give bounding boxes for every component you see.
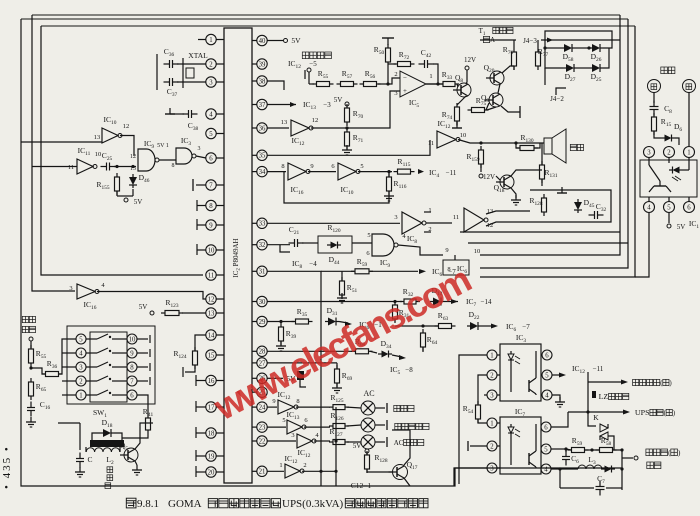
wire xtal rail — [156, 54, 158, 90]
svg-text:37: 37 — [259, 102, 266, 109]
diode D44 — [327, 242, 341, 266]
capacitor C21 — [267, 225, 303, 252]
label IC7-14 — [444, 297, 492, 308]
resistor R125 — [329, 393, 349, 410]
svg-text:3: 3 — [647, 149, 651, 156]
diode D34 — [370, 339, 392, 358]
wire pin21 — [267, 462, 284, 471]
wire lamp1 — [296, 406, 330, 408]
wire gate loop — [284, 172, 389, 203]
svg-text:5: 5 — [209, 131, 213, 138]
nor gate IC9a — [130, 139, 159, 172]
diode D46 — [129, 173, 150, 188]
svg-text:12: 12 — [312, 117, 319, 124]
label L2 relay — [105, 455, 114, 489]
svg-text:39: 39 — [259, 61, 266, 68]
wire IC3 pin4 gnd — [552, 395, 565, 407]
lamp ac-over — [347, 435, 424, 449]
wire frame top line 1 — [32, 14, 620, 16]
IC2 pin 36 — [252, 123, 267, 133]
wire 9-6 — [308, 163, 336, 172]
wire pin14 — [195, 335, 206, 351]
power 5V R70 — [334, 96, 349, 106]
svg-text:13: 13 — [281, 119, 288, 126]
switch SW1 contact 3-8 — [76, 362, 137, 372]
wire Q18 gnd — [511, 170, 542, 205]
svg-text:13: 13 — [130, 166, 136, 172]
wire frame outer left/bottom — [21, 19, 622, 486]
wire pin34 row — [267, 163, 286, 172]
resistor R115 — [394, 157, 415, 174]
wire frame right line 2 to bus — [480, 19, 628, 268]
wire y243 bus — [468, 242, 628, 244]
inverter IC10 — [94, 115, 130, 143]
switch SW1 contact 5-10 — [76, 334, 137, 344]
resistor R65 — [29, 378, 47, 400]
svg-text:−14: −14 — [481, 298, 492, 306]
wire pin30 — [267, 300, 402, 303]
diode D22 — [467, 310, 481, 330]
watermark elecfans — [207, 259, 477, 428]
wire opamp out — [426, 82, 443, 85]
transistor Q20 — [484, 63, 504, 85]
wire Q20 collector — [502, 66, 514, 73]
terminal mains live — [648, 80, 661, 93]
optocoupler IC3 body — [500, 333, 541, 401]
wire ic6-7a — [370, 269, 426, 274]
label IC12-5 — [288, 59, 317, 79]
svg-text:13: 13 — [94, 134, 101, 141]
capacitor C36 — [164, 47, 179, 68]
svg-text:11: 11 — [453, 214, 459, 221]
resistor R55b — [29, 345, 47, 367]
IC2 pin 27 — [252, 358, 267, 368]
resistor R55 — [313, 69, 334, 87]
resistor R35 — [292, 307, 313, 324]
relay L2 coil — [86, 447, 120, 452]
IC2 pin 39 — [252, 59, 267, 69]
svg-text:3: 3 — [209, 79, 213, 86]
relay L2 core — [90, 440, 124, 447]
wire pin31 — [267, 271, 321, 486]
svg-text:LZ: LZ — [599, 393, 609, 401]
svg-text:10: 10 — [474, 248, 481, 255]
svg-text:−8: −8 — [405, 366, 413, 374]
resistor R32 — [400, 287, 420, 304]
wire c21 out — [302, 242, 318, 244]
svg-text:1: 1 — [209, 37, 212, 44]
inverter IC8a — [402, 207, 432, 245]
IC3 pin4 — [541, 390, 552, 400]
svg-text:15: 15 — [208, 352, 215, 359]
svg-text:21: 21 — [259, 469, 266, 476]
wire IC12a out — [311, 91, 400, 130]
diode D45 — [574, 198, 595, 213]
wire pin21 out — [302, 470, 338, 473]
IC2 pin 17 — [206, 402, 224, 412]
IC2 pin 23 — [252, 422, 267, 432]
wire to pin6 — [196, 156, 206, 158]
svg-text:4: 4 — [209, 111, 213, 118]
wire pin15 — [183, 365, 195, 377]
terminal mains neutral — [683, 80, 696, 93]
IC7 pin3 — [487, 463, 500, 473]
resistor R127 — [329, 427, 349, 445]
wire IC7-4 out — [551, 467, 578, 470]
IC2 pin 35 — [252, 150, 267, 160]
IC2 pin 8 — [206, 200, 224, 210]
side page label 435 — [1, 445, 13, 489]
svg-text:36: 36 — [259, 125, 266, 132]
svg-text:1: 1 — [279, 462, 282, 469]
switch block SW1 box — [67, 326, 155, 419]
capacitor C37 — [164, 78, 179, 98]
svg-text:10: 10 — [460, 132, 467, 139]
svg-text:2: 2 — [490, 372, 494, 379]
svg-text:5: 5 — [360, 163, 363, 170]
svg-text:5: 5 — [544, 446, 548, 453]
svg-text:1: 1 — [490, 352, 493, 359]
svg-text:3: 3 — [291, 432, 294, 439]
power 5V pin26 — [267, 371, 306, 387]
svg-text:10: 10 — [95, 151, 102, 158]
svg-text:12: 12 — [130, 154, 136, 160]
label C12-1 — [351, 481, 372, 490]
inverter IC12b — [428, 119, 466, 148]
wire pin23 — [267, 417, 286, 427]
wire pin36 chain — [267, 127, 289, 129]
svg-text:2: 2 — [209, 61, 213, 68]
resistor R75 — [452, 96, 489, 128]
wire pin3 — [177, 81, 206, 83]
resistor R59 — [566, 436, 589, 453]
thyristor K — [593, 413, 614, 450]
ground R116 — [384, 191, 394, 201]
svg-text:8: 8 — [130, 364, 134, 371]
IC3 pin5 — [541, 370, 552, 380]
svg-text:2: 2 — [667, 149, 671, 156]
svg-text:40: 40 — [259, 38, 266, 45]
wire pin7 stub — [193, 179, 206, 191]
resistor R128a — [529, 194, 546, 216]
switch SW1 contact 1-6 — [76, 390, 137, 400]
wire out12 — [486, 222, 530, 226]
svg-text:9: 9 — [209, 222, 213, 229]
inductor L3 — [578, 455, 602, 469]
label T1 transformer — [479, 27, 513, 44]
svg-text:12: 12 — [208, 296, 215, 303]
power 5V node — [117, 189, 142, 206]
IC2 pin 24 — [252, 402, 267, 412]
wire neutral down — [688, 93, 690, 147]
relay IC1 pin3 — [644, 147, 655, 158]
svg-text:34: 34 — [259, 169, 266, 176]
capacitor C25 — [101, 151, 116, 171]
IC2 microcontroller P8049AH body — [224, 28, 252, 483]
IC7 pin5 — [541, 444, 551, 454]
label AC — [363, 389, 374, 398]
ground C relay — [75, 467, 85, 477]
label J4-3 — [523, 37, 553, 45]
svg-text:33: 33 — [259, 221, 266, 228]
IC2 pin 2 — [206, 59, 224, 69]
svg-text:23: 23 — [259, 425, 266, 432]
wire pin16 stub — [196, 375, 206, 386]
wire speaker feed — [458, 140, 544, 145]
svg-text:5V: 5V — [134, 198, 143, 206]
wire pin27 — [267, 362, 337, 364]
wire IC3 pin1 left — [459, 355, 487, 484]
resistor R77 — [536, 40, 549, 70]
label IC6-7b — [481, 322, 530, 333]
svg-text:5V: 5V — [677, 223, 686, 231]
capacitor C42 — [419, 48, 434, 68]
diode D27 — [563, 64, 577, 83]
svg-text:38: 38 — [259, 78, 266, 85]
resistor R51 — [340, 271, 358, 299]
capacitor C8 — [650, 101, 673, 116]
IC2 label — [232, 238, 242, 277]
lamp battery — [347, 418, 429, 432]
resistor R72 — [394, 50, 415, 67]
IC7 pin6 — [541, 412, 568, 432]
svg-text:8: 8 — [296, 398, 299, 405]
IC2 pin 19 — [206, 451, 224, 461]
wire Q9 base — [486, 68, 545, 110]
svg-text:11: 11 — [208, 272, 215, 279]
wire pin10 stub — [197, 244, 206, 255]
svg-text:32: 32 — [259, 242, 266, 249]
svg-text:30: 30 — [259, 299, 266, 306]
IC2 pin 20 — [206, 467, 224, 477]
svg-text:7: 7 — [130, 378, 134, 385]
inverter IC9e — [464, 208, 493, 232]
node batt — [29, 366, 32, 369]
resistor R155 — [96, 173, 119, 195]
wire pin35 long — [267, 140, 430, 155]
IC2 pin 25 — [252, 387, 267, 397]
svg-text:XTAL: XTAL — [188, 51, 208, 60]
nand gate IC9b — [372, 233, 406, 269]
resistor R54 — [463, 401, 487, 423]
ground R39 — [276, 341, 286, 351]
svg-text:−: − — [403, 73, 407, 81]
ground R71 — [342, 145, 352, 155]
wire nor out — [157, 143, 176, 160]
svg-text:3: 3 — [79, 364, 83, 371]
svg-text:10: 10 — [129, 336, 136, 343]
IC2 pin 34 — [252, 166, 267, 176]
capacitor C32 — [589, 202, 607, 219]
svg-text:3: 3 — [394, 214, 397, 221]
resistor R128b — [365, 451, 388, 473]
diode D out — [601, 466, 615, 473]
svg-text:9.8.1: 9.8.1 — [137, 498, 159, 510]
svg-text:20: 20 — [208, 469, 215, 476]
IC2 pin 4 — [206, 109, 224, 119]
svg-text:AC: AC — [394, 439, 404, 447]
wire frame top line 3 — [41, 25, 635, 27]
wire pin28 — [267, 350, 352, 352]
wire Q9 emitter — [501, 106, 520, 118]
IC2 pin 33 — [252, 218, 267, 228]
svg-text:UPS: UPS — [635, 409, 650, 417]
wire frame top line 2 — [21, 18, 628, 20]
wire y232 bus — [460, 231, 620, 233]
relay transistor — [649, 158, 671, 193]
inverter IC10b — [338, 163, 364, 196]
inverter IC16a — [69, 282, 105, 311]
relay IC1 pin6 — [684, 197, 695, 213]
lamp normal — [347, 401, 414, 415]
resistor R130 — [516, 133, 540, 151]
inverter IC11 — [68, 146, 101, 174]
svg-text:35: 35 — [259, 153, 266, 160]
IC2 pin 22 — [252, 436, 267, 446]
svg-text:−3: −3 — [323, 101, 331, 109]
svg-text:1: 1 — [687, 149, 690, 156]
svg-text:• 435 •: • 435 • — [1, 445, 13, 489]
wire pin1 stub — [198, 39, 206, 41]
IC2 pin 11 — [206, 270, 224, 280]
svg-text:18: 18 — [208, 430, 215, 437]
wire pin8 stub — [197, 200, 206, 211]
svg-text:AC: AC — [363, 389, 374, 398]
wire IC7 pin3 left — [454, 468, 487, 486]
wire Q17 collector — [392, 430, 410, 465]
svg-text:8: 8 — [209, 203, 213, 210]
IC7 pin1 — [487, 418, 500, 428]
resistor R131 — [540, 143, 558, 186]
transistor Q5 — [120, 441, 138, 462]
IC2 pin 6 — [206, 153, 224, 163]
wire out13 — [486, 211, 530, 214]
IC7 pin2 — [487, 441, 500, 451]
inverter IC12d — [297, 432, 319, 459]
resistor R76 — [503, 40, 517, 70]
svg-text:22: 22 — [259, 438, 266, 445]
svg-text:6: 6 — [209, 155, 213, 162]
svg-text:J4−3: J4−3 — [523, 37, 537, 45]
wire relay loop — [58, 423, 80, 450]
IC2 pin 31 — [252, 266, 267, 276]
wire vertical x336 — [334, 407, 337, 486]
wire relay pin4 bus — [635, 213, 649, 278]
wire IC7-5 out — [551, 447, 567, 450]
IC2 pin 21 — [252, 466, 267, 476]
wire pin9 stub — [197, 219, 206, 230]
resistor R59b — [321, 257, 373, 274]
IC2 pin 40 — [252, 35, 267, 45]
svg-text:5V: 5V — [334, 96, 343, 104]
svg-text:12V: 12V — [483, 173, 495, 181]
inverter IC13b — [287, 410, 309, 434]
svg-text:3: 3 — [490, 465, 494, 472]
wire IC10 out — [120, 136, 134, 157]
capacitor C7 — [560, 469, 622, 496]
svg-text:4: 4 — [544, 466, 548, 473]
IC2 pin 3 — [206, 77, 224, 87]
wire lamp3 — [314, 440, 330, 442]
IC2 pin 10 — [206, 245, 224, 255]
wire input 13 — [21, 141, 102, 143]
inverter IC12a — [281, 117, 319, 147]
IC2 pin 30 — [252, 296, 267, 306]
resistor R63 — [435, 311, 456, 329]
svg-text:8: 8 — [281, 163, 284, 170]
wire out node — [613, 448, 624, 490]
svg-text:2: 2 — [490, 443, 494, 450]
svg-text:GOMA: GOMA — [168, 498, 202, 510]
svg-text:7: 7 — [209, 182, 213, 189]
wire pin29 — [267, 320, 294, 323]
svg-text:C: C — [87, 455, 92, 464]
svg-text:−5: −5 — [309, 60, 317, 68]
inverter IC12e — [285, 454, 307, 478]
label IC13-3 — [267, 100, 331, 111]
label mains — [661, 67, 675, 74]
wire frame right line 3 to bus — [480, 26, 635, 277]
label IC5-8 — [390, 355, 413, 376]
svg-text:5V: 5V — [353, 442, 362, 450]
resistor R33 — [439, 70, 459, 87]
IC2 pin 13 — [206, 308, 224, 318]
resistor R126 — [329, 411, 349, 429]
svg-text:4: 4 — [79, 350, 83, 357]
wire batt top node — [307, 68, 314, 84]
wire gate out — [358, 170, 392, 173]
svg-text:11: 11 — [428, 140, 434, 147]
resistor R159 — [466, 146, 483, 172]
diode D13 — [430, 286, 444, 306]
optocoupler IC7 body — [500, 407, 541, 474]
wire input 11 — [32, 166, 77, 168]
wire pin5 stub — [0, 0, 1, 1]
wire IC7 pin2 gnd — [468, 441, 487, 451]
IC2 pin 32 — [252, 240, 267, 250]
svg-text:9: 9 — [130, 350, 134, 357]
wire gnd C38 — [165, 108, 184, 114]
IC2 pin 14 — [206, 330, 224, 340]
relay IC1 pin4 — [644, 197, 655, 213]
wire K drop — [588, 412, 596, 426]
resistor R71 — [345, 128, 364, 150]
diode D58 — [561, 44, 575, 63]
svg-text:4: 4 — [545, 392, 549, 399]
IC3 pin1 — [487, 350, 500, 360]
crystal XTAL — [183, 51, 208, 88]
svg-text:−11: −11 — [593, 365, 604, 373]
ground R69 — [332, 383, 342, 393]
resistor R68 — [352, 337, 373, 354]
wire C25 to gate — [114, 165, 136, 168]
resistor R57 — [337, 69, 358, 87]
svg-text:−7: −7 — [522, 323, 530, 331]
wire ups-out arrow — [568, 382, 676, 417]
transistor Q9 — [481, 93, 503, 110]
svg-text:1: 1 — [429, 73, 432, 80]
resistor R58 — [585, 436, 617, 453]
svg-text:3: 3 — [490, 392, 494, 399]
wire pin38 hook — [267, 81, 284, 90]
svg-text:9: 9 — [445, 247, 448, 254]
svg-text:K: K — [593, 413, 599, 422]
wire IC3 pin3 left — [484, 394, 487, 396]
wire pin19 stub — [196, 450, 206, 461]
IC2 pin 1 — [206, 34, 224, 44]
IC2 pin 12 — [206, 294, 224, 304]
svg-text:UPS(0.3kVA): UPS(0.3kVA) — [282, 498, 344, 510]
